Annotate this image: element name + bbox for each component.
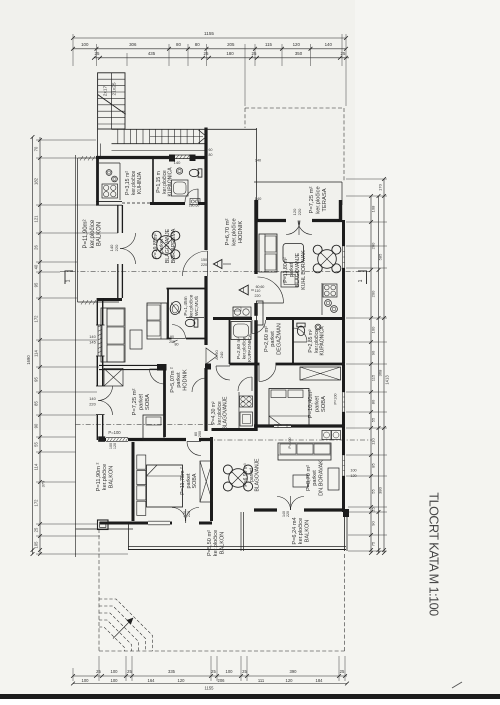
svg-text:1: 1 (66, 279, 72, 282)
svg-text:220: 220 (187, 511, 191, 517)
svg-text:1155: 1155 (204, 686, 214, 691)
svg-text:90: 90 (371, 350, 376, 355)
svg-text:KUPAONICA: KUPAONICA (168, 167, 174, 197)
svg-text:BOR.APREMA: BOR.APREMA (171, 228, 177, 263)
svg-text:100: 100 (350, 469, 356, 473)
svg-text:200: 200 (371, 242, 376, 249)
svg-text:KUPAONICA: KUPAONICA (247, 333, 253, 362)
svg-text:110: 110 (371, 438, 376, 445)
svg-text:172: 172 (34, 499, 39, 507)
svg-text:75: 75 (371, 541, 376, 546)
svg-text:25: 25 (127, 669, 132, 674)
svg-text:TLOCRT KATA M 1:100: TLOCRT KATA M 1:100 (427, 492, 441, 616)
svg-text:100: 100 (371, 326, 376, 333)
svg-text:25: 25 (371, 507, 376, 512)
svg-text:172: 172 (34, 315, 39, 323)
svg-text:25: 25 (242, 669, 247, 674)
svg-text:368: 368 (378, 369, 383, 376)
svg-text:ker.pločice: ker.pločice (232, 218, 238, 245)
svg-text:P=11,90m²: P=11,90m² (83, 219, 89, 248)
svg-text:HODNIK: HODNIK (182, 369, 188, 391)
svg-text:1: 1 (358, 279, 364, 282)
svg-text:P=7,25 m²: P=7,25 m² (309, 186, 315, 213)
svg-text:200: 200 (169, 340, 175, 344)
svg-text:parket: parket (314, 396, 320, 413)
svg-text:145: 145 (89, 340, 96, 345)
svg-text:SOBA: SOBA (321, 396, 327, 412)
svg-text:SOBA: SOBA (192, 473, 198, 488)
svg-text:220: 220 (201, 263, 207, 267)
svg-text:100: 100 (111, 678, 119, 683)
svg-text:P=100: P=100 (108, 430, 121, 435)
svg-text:KUHINJA: KUHINJA (137, 171, 143, 194)
svg-text:BLAGOVANJE: BLAGOVANJE (223, 396, 229, 430)
svg-text:BLAGOVANJE: BLAGOVANJE (255, 458, 261, 492)
svg-text:306: 306 (129, 42, 137, 47)
svg-text:21x25: 21x25 (112, 82, 118, 95)
svg-text:335: 335 (168, 669, 176, 674)
svg-text:KUPAONICA: KUPAONICA (320, 326, 326, 356)
svg-text:55: 55 (371, 417, 376, 422)
svg-text:ker.pločice: ker.pločice (102, 464, 108, 490)
svg-text:95: 95 (34, 282, 39, 287)
svg-text:120: 120 (113, 443, 117, 449)
svg-text:P=5,50 m²: P=5,50 m² (207, 530, 213, 556)
svg-text:108: 108 (371, 205, 376, 212)
svg-text:379: 379 (41, 480, 46, 487)
svg-text:100: 100 (111, 669, 119, 674)
svg-text:85: 85 (371, 463, 376, 468)
svg-text:205: 205 (227, 42, 235, 47)
svg-text:P=100: P=100 (334, 393, 338, 404)
svg-text:parket: parket (312, 470, 318, 486)
svg-text:P=7,25 m²: P=7,25 m² (132, 388, 138, 415)
svg-text:380: 380 (378, 486, 383, 493)
svg-text:95: 95 (34, 377, 39, 382)
svg-text:P=8,70 m²: P=8,70 m² (306, 465, 312, 491)
svg-text:P=1,45m: P=1,45m (183, 296, 189, 315)
svg-text:25: 25 (211, 669, 216, 674)
svg-text:164: 164 (148, 678, 156, 683)
svg-text:180;60: 180;60 (189, 204, 200, 208)
svg-text:55: 55 (371, 489, 376, 494)
svg-text:220: 220 (297, 208, 302, 215)
svg-text:80: 80 (176, 42, 181, 47)
svg-text:200: 200 (371, 290, 376, 297)
svg-text:40: 40 (34, 264, 39, 269)
svg-text:390: 390 (290, 669, 298, 674)
svg-text:140: 140 (255, 159, 261, 163)
svg-text:ker.pločice: ker.pločice (298, 518, 304, 544)
svg-text:90: 90 (34, 423, 39, 428)
svg-text:220: 220 (114, 244, 119, 251)
svg-text:55: 55 (34, 442, 39, 447)
svg-text:90: 90 (371, 521, 376, 526)
svg-text:ker.pločice: ker.pločice (90, 219, 96, 248)
svg-text:25: 25 (34, 527, 39, 532)
svg-text:ker.pločice: ker.pločice (242, 336, 248, 359)
svg-text:ker.pločice: ker.pločice (213, 530, 219, 556)
svg-text:P=2,60 m²: P=2,60 m² (264, 326, 270, 352)
svg-text:585: 585 (378, 253, 383, 260)
svg-text:25: 25 (340, 669, 345, 674)
svg-text:25: 25 (95, 51, 100, 56)
svg-text:P=11,90m ²: P=11,90m ² (96, 463, 102, 492)
svg-text:P=6,70 m²: P=6,70 m² (225, 218, 231, 245)
svg-text:85: 85 (34, 401, 39, 406)
svg-text:206: 206 (218, 678, 226, 683)
svg-text:DN.BORAVAK: DN.BORAVAK (318, 460, 324, 496)
svg-text:100: 100 (226, 669, 234, 674)
svg-text:70: 70 (34, 146, 39, 151)
svg-text:BALKON: BALKON (219, 532, 225, 555)
svg-text:100: 100 (81, 42, 89, 47)
svg-text:P=10,40m²: P=10,40m² (308, 390, 314, 419)
svg-text:80: 80 (371, 399, 376, 404)
svg-text:1413: 1413 (385, 375, 390, 385)
svg-text:ker.pločice: ker.pločice (189, 294, 195, 317)
svg-text:182: 182 (34, 177, 39, 185)
svg-text:170: 170 (378, 183, 383, 190)
svg-text:220: 220 (255, 294, 261, 298)
svg-text:100: 100 (82, 678, 90, 683)
svg-text:114: 114 (34, 349, 39, 356)
svg-text:parket: parket (138, 394, 144, 411)
svg-text:25: 25 (252, 51, 257, 56)
svg-text:80: 80 (209, 153, 213, 157)
svg-text:120: 120 (293, 42, 301, 47)
svg-text:140: 140 (255, 196, 262, 201)
svg-text:HODNIK: HODNIK (238, 221, 244, 244)
svg-text:60: 60 (209, 148, 213, 152)
svg-text:220: 220 (286, 511, 290, 517)
svg-text:140: 140 (174, 160, 181, 165)
svg-text:1690: 1690 (26, 355, 31, 365)
svg-text:90: 90 (170, 335, 174, 339)
svg-text:1155: 1155 (204, 31, 214, 36)
svg-text:P=6,24 m4: P=6,24 m4 (292, 517, 298, 544)
svg-text:115: 115 (265, 42, 273, 47)
svg-text:TERASA: TERASA (322, 188, 328, 211)
svg-text:SOBA: SOBA (145, 394, 151, 410)
svg-text:111: 111 (258, 678, 265, 683)
svg-text:240: 240 (219, 351, 224, 358)
svg-text:180: 180 (226, 51, 234, 56)
svg-text:120: 120 (178, 678, 186, 683)
svg-text:110: 110 (255, 289, 261, 293)
svg-text:60;60: 60;60 (256, 285, 265, 289)
svg-text:105: 105 (34, 541, 39, 549)
svg-text:BALKON: BALKON (304, 520, 310, 543)
svg-text:KUHL BORAVAK: KUHL BORAVAK (301, 250, 307, 290)
svg-text:140: 140 (89, 334, 96, 339)
svg-text:114: 114 (34, 463, 39, 470)
svg-text:ker.pločice: ker.pločice (316, 186, 322, 213)
svg-text:140: 140 (325, 42, 333, 47)
svg-text:parket: parket (270, 331, 276, 347)
svg-text:184: 184 (316, 678, 324, 683)
svg-text:220: 220 (89, 402, 96, 407)
svg-text:121: 121 (34, 215, 39, 223)
svg-text:P=100: P=100 (288, 437, 292, 448)
svg-text:BALKON: BALKON (108, 466, 114, 489)
svg-text:115: 115 (371, 374, 376, 381)
svg-text:80: 80 (175, 343, 179, 347)
svg-text:140: 140 (89, 396, 96, 401)
svg-text:DEGAŽMAN: DEGAŽMAN (274, 323, 282, 355)
svg-text:435: 435 (148, 51, 156, 56)
svg-text:WC;MUŠ: WC;MUŠ (193, 296, 200, 316)
svg-text:parket: parket (176, 372, 182, 388)
svg-text:80: 80 (195, 42, 200, 47)
svg-text:120: 120 (286, 678, 294, 683)
svg-text:2x17: 2x17 (103, 85, 109, 96)
svg-text:120: 120 (350, 474, 356, 478)
svg-text:350: 350 (295, 51, 303, 56)
svg-text:P=5,07m ²: P=5,07m ² (170, 367, 176, 393)
svg-text:P=2,60 m²: P=2,60 m² (236, 336, 242, 359)
svg-text:BALKON: BALKON (97, 222, 103, 246)
svg-text:26: 26 (34, 245, 39, 250)
svg-text:25: 25 (341, 51, 346, 56)
svg-text:150: 150 (201, 258, 207, 262)
svg-text:200: 200 (198, 431, 202, 437)
